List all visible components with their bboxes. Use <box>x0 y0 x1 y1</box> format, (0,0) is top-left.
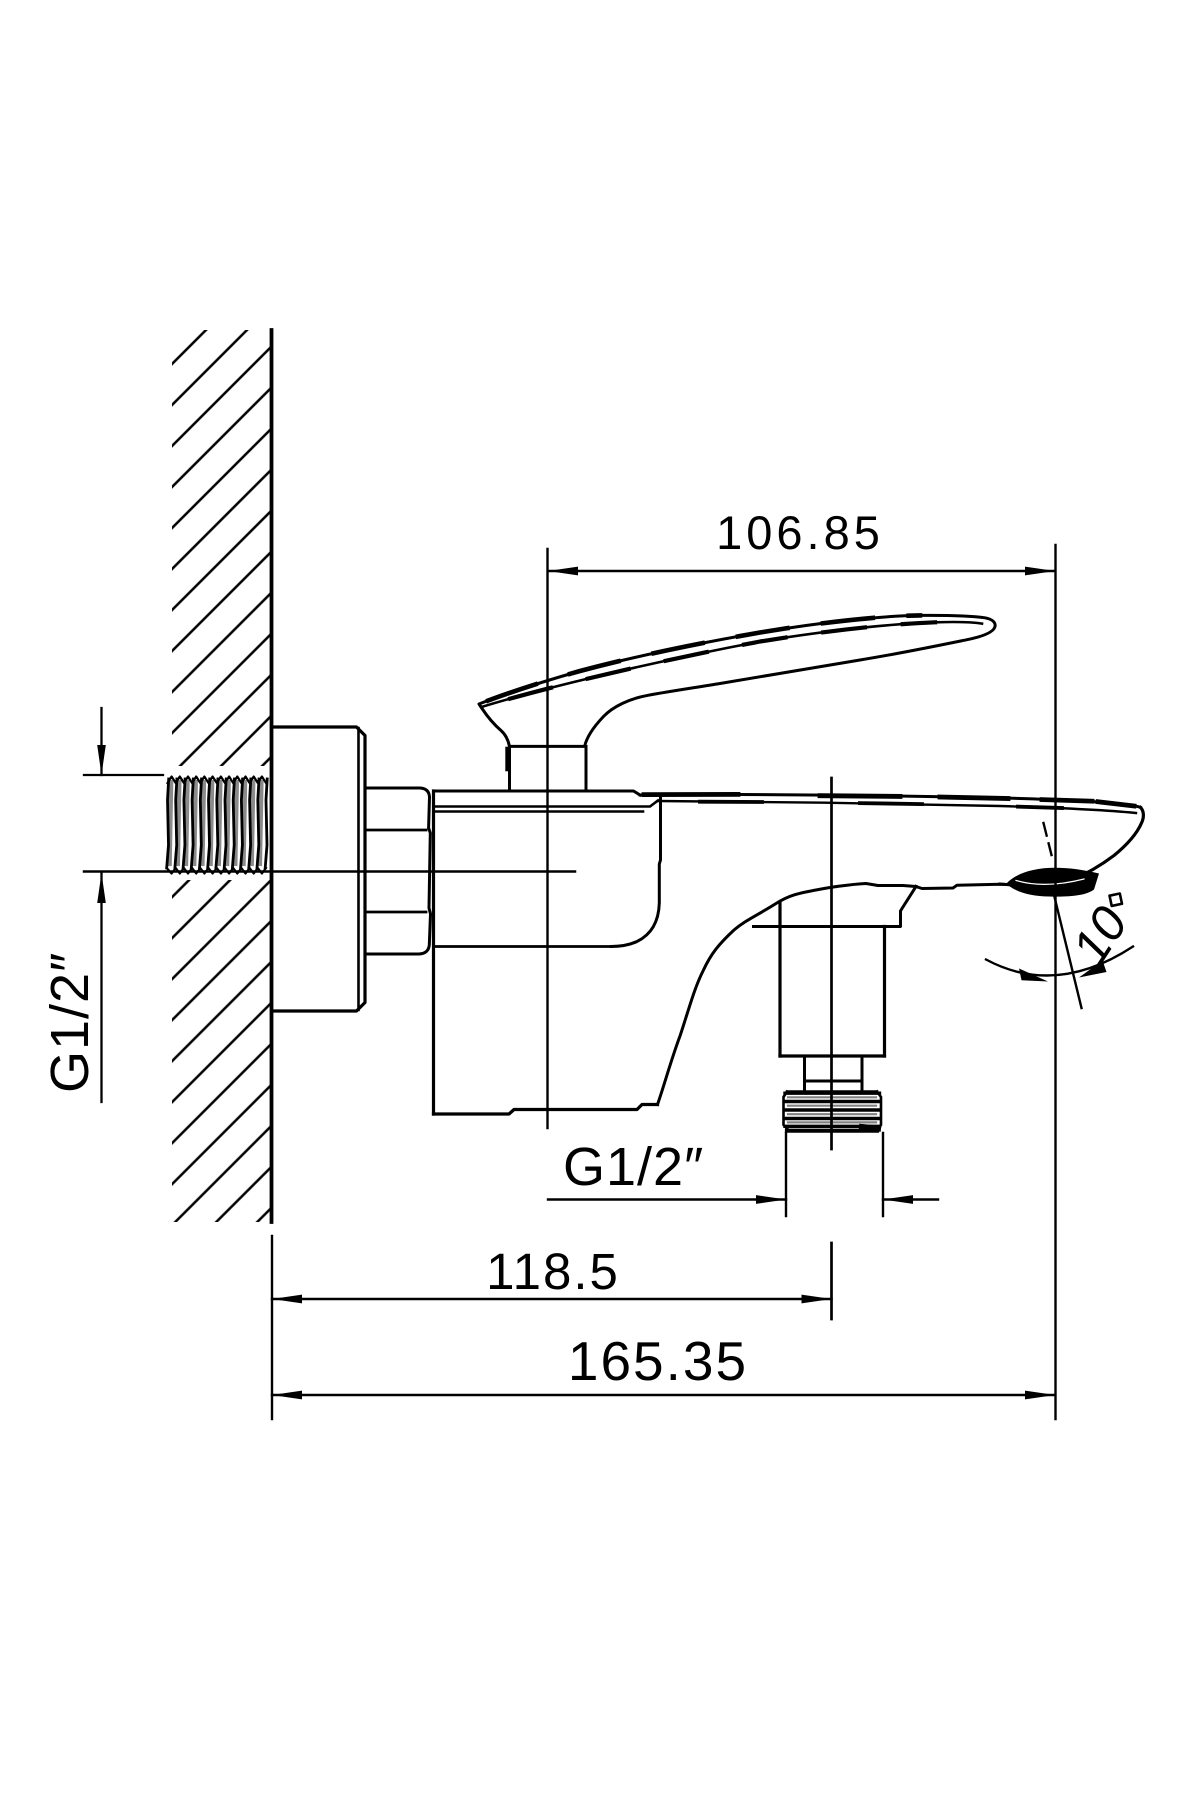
wall inlet thread G1/2 <box>167 777 268 874</box>
spout axis dashed line (10 deg) <box>1044 823 1082 1008</box>
outlet seam line <box>754 925 901 928</box>
dimension 106.85 line <box>548 570 1055 572</box>
dimension G1/2 (inlet) leader line <box>100 708 102 1102</box>
svg-text:G1/2″: G1/2″ <box>563 1137 704 1197</box>
inlet axis / thread bottom line <box>84 870 575 873</box>
faucet body bottom edge <box>434 1105 658 1115</box>
handle base bold tick <box>505 749 510 769</box>
svg-text:G1/2″: G1/2″ <box>40 952 100 1093</box>
dimension G1/2 (inlet) arrow bottom <box>97 873 106 903</box>
dimension G1/2 (outlet) lines <box>548 1133 938 1216</box>
spout tip curve <box>1059 807 1144 885</box>
outlet nipple block <box>780 904 885 1057</box>
faucet body left edge <box>432 791 435 1114</box>
outlet thread G1/2 <box>784 1092 882 1131</box>
dimension G1/2 (inlet) arrow top <box>97 745 106 775</box>
dimension 106.85 extension line left (handle axis) <box>546 549 548 1128</box>
spout top edge dark dashes <box>644 794 1134 806</box>
outlet neck <box>805 1056 863 1091</box>
escutcheon flange inner edge <box>357 728 360 1010</box>
handle lever outline <box>479 615 995 746</box>
svg-text:106.85: 106.85 <box>716 506 884 559</box>
faucet body seam lines <box>434 801 658 812</box>
wall hatching <box>154 330 272 1222</box>
spout underside right segment <box>916 884 1010 888</box>
faucet body front S-curve and spout underside <box>658 884 917 1105</box>
inlet thread top extension line <box>84 774 163 776</box>
escutcheon flange <box>272 727 366 1011</box>
angular dimension arc <box>986 947 1133 976</box>
angular dimension arrows <box>1019 969 1048 982</box>
svg-text:118.5: 118.5 <box>486 1243 620 1300</box>
spout top second line <box>658 801 1136 813</box>
outlet centerline <box>830 778 833 1319</box>
aerator dark crescent <box>1000 868 1099 897</box>
dimension 165.35 line <box>272 1394 1055 1396</box>
extension line right (spout outlet axis) <box>1054 545 1056 1419</box>
faucet body ledge seam <box>434 945 611 948</box>
handle lever top face line <box>482 622 983 707</box>
wall face edge <box>270 330 274 1222</box>
faucet body cartridge right edge <box>611 795 661 947</box>
dimension 118.5 line <box>272 1298 832 1300</box>
spout underside wedge <box>901 887 917 926</box>
faucet body top edge <box>434 791 641 795</box>
svg-text:165.35: 165.35 <box>568 1330 748 1392</box>
spout top edge <box>640 794 1141 807</box>
mounting nut <box>365 788 431 954</box>
handle base <box>510 746 587 790</box>
dimension 118.5 extension line left (wall face) <box>271 1236 273 1419</box>
mounting nut facet lines <box>365 830 426 912</box>
